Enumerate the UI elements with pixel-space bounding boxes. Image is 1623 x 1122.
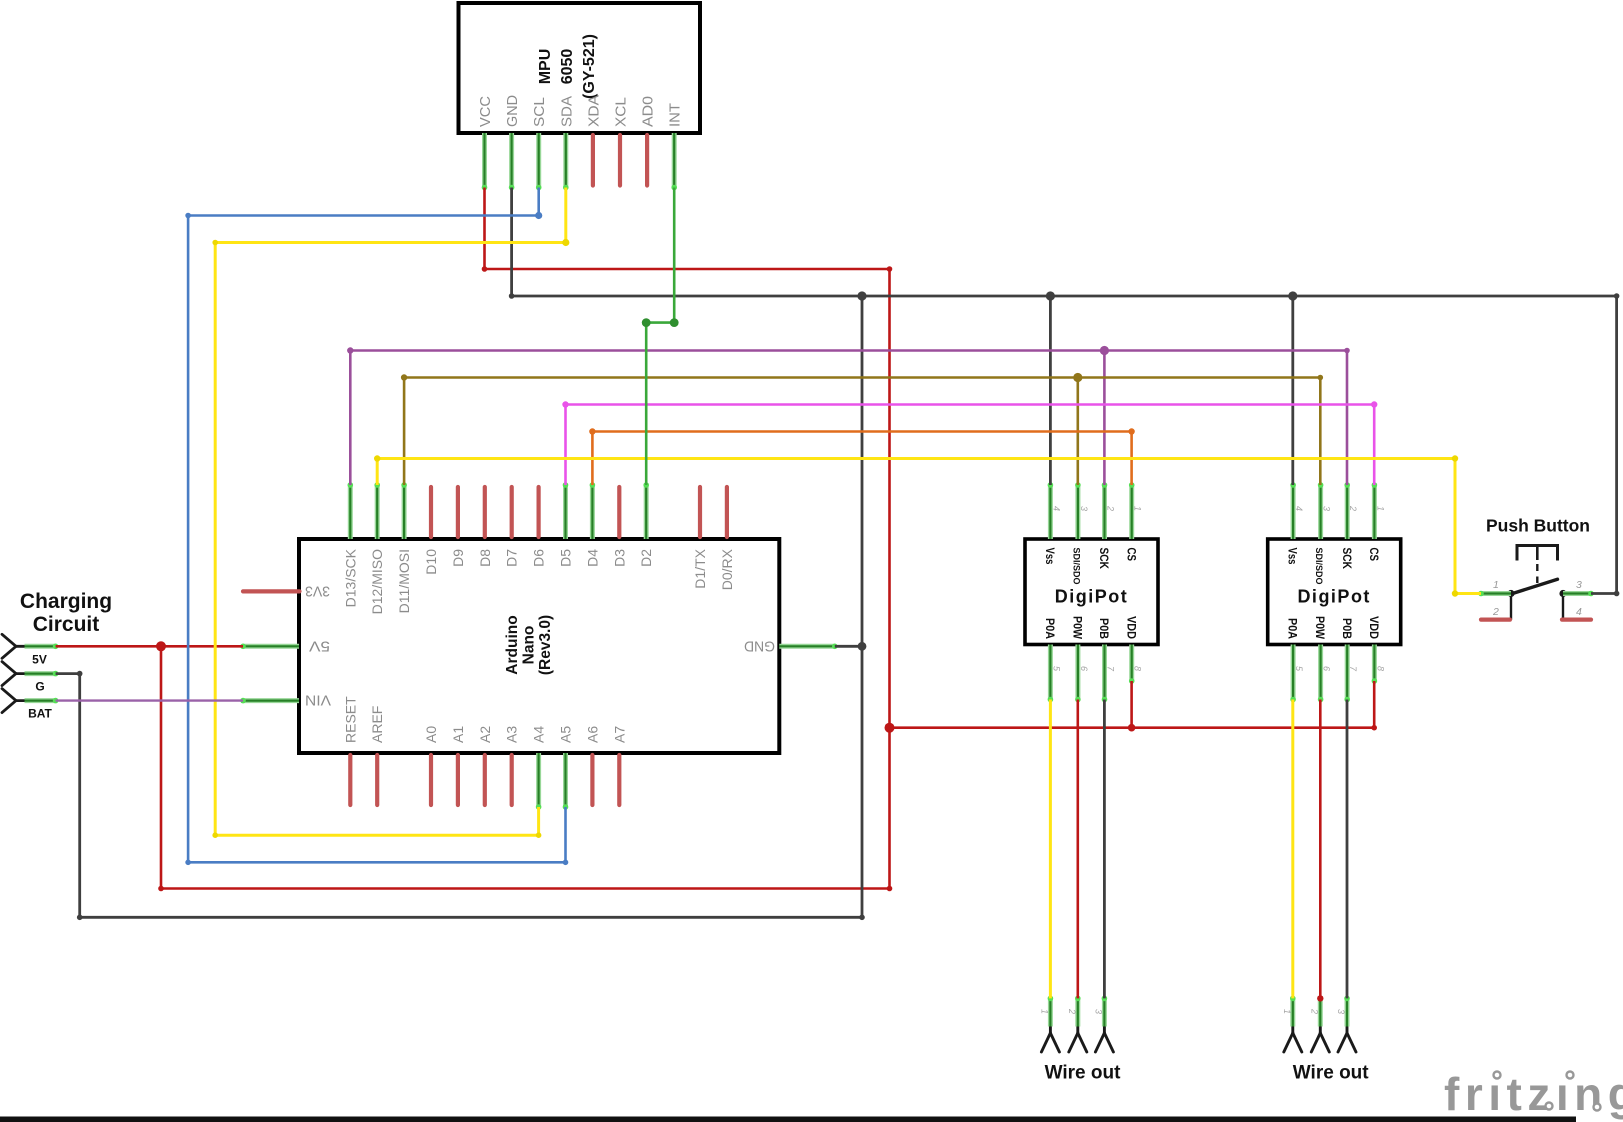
wire: 5V red net — [56, 188, 1375, 999]
svg-text:2: 2 — [1492, 606, 1499, 618]
junction: DigiPot1 Vss — [1046, 291, 1055, 300]
svg-text:(GY-521): (GY-521) — [581, 34, 598, 99]
junction: GND rail top — [857, 291, 866, 300]
svg-text:D0/RX: D0/RX — [719, 548, 735, 590]
svg-text:AD0: AD0 — [640, 96, 657, 127]
svg-text:XCL: XCL — [613, 97, 630, 127]
MPU pin SDA leg — [563, 133, 568, 188]
svg-text:Arduino: Arduino — [504, 615, 521, 674]
svg-text:P0W: P0W — [1313, 616, 1327, 640]
svg-text:frıtzıng: frıtzıng — [1444, 1068, 1623, 1120]
svg-text:SCK: SCK — [1097, 548, 1111, 570]
Arduino pin GND leg — [779, 644, 835, 649]
svg-text:CS: CS — [1124, 548, 1138, 562]
svg-text:VCC: VCC — [477, 96, 494, 127]
svg-text:D12/MISO: D12/MISO — [369, 549, 385, 614]
wire: D12/MISO yellow net to push button — [377, 459, 1481, 594]
svg-text:A5: A5 — [558, 726, 574, 743]
DigiPot U1 pin SCK leg — [1102, 485, 1107, 539]
svg-text:RESET: RESET — [342, 696, 358, 743]
wire: SDA-A4 yellow net — [215, 188, 566, 836]
junction: 5V at Arduino — [156, 641, 166, 651]
junction: DigiPot1 VDD — [1128, 724, 1136, 732]
Arduino pin D2 leg — [644, 485, 649, 539]
connector G leg — [25, 671, 56, 676]
Arduino pin D13/SCK leg — [348, 485, 353, 539]
Arduino pin D6 (unconnected) — [536, 487, 540, 537]
svg-text:SDI/SDO: SDI/SDO — [1314, 548, 1324, 585]
svg-text:D7: D7 — [504, 549, 520, 567]
svg-text:D5: D5 — [558, 549, 574, 567]
svg-text:A3: A3 — [504, 726, 520, 743]
svg-text:VDD: VDD — [1124, 616, 1138, 639]
svg-text:4: 4 — [1576, 606, 1582, 618]
svg-text:2: 2 — [1067, 1008, 1077, 1014]
svg-text:CS: CS — [1367, 548, 1381, 562]
svg-text:VIN: VIN — [305, 692, 331, 709]
connector BAT leg — [25, 698, 56, 703]
svg-text:3: 3 — [1576, 579, 1582, 591]
svg-text:2: 2 — [1309, 1008, 1319, 1014]
MPU pin XCL (unconnected) — [618, 135, 622, 186]
wire-out pin 2 fork — [1069, 1027, 1087, 1053]
svg-text:MPU: MPU — [537, 49, 554, 85]
push button pin 2 (unconnected) — [1481, 617, 1510, 621]
Arduino pin D11/MOSI leg — [402, 485, 407, 539]
svg-text:A4: A4 — [531, 726, 547, 743]
DigiPot U1 pin P0A leg — [1048, 645, 1053, 700]
svg-text:DigiPot: DigiPot — [1055, 587, 1129, 607]
connector 5V fork — [2, 634, 25, 658]
svg-text:D8: D8 — [477, 549, 493, 567]
junction: GND rail / Arduino GND — [858, 642, 867, 651]
svg-text:5V: 5V — [32, 652, 47, 666]
svg-text:A2: A2 — [477, 726, 493, 743]
svg-text:SCL: SCL — [531, 97, 548, 127]
DigiPot U2 pin CS leg — [1372, 485, 1377, 539]
wire-out pin 3 fork — [1338, 1027, 1356, 1053]
DigiPot U1 pin P0W leg — [1075, 645, 1080, 700]
push button pin 3 leg — [1563, 591, 1591, 596]
wire-out pin 1 fork — [1041, 1027, 1059, 1053]
wire: DigiPot P0A yellow outputs — [1050, 700, 1292, 999]
svg-text:1: 1 — [1493, 579, 1499, 591]
svg-text:SDI/SDO: SDI/SDO — [1072, 548, 1082, 585]
Arduino pin AREF (unconnected) — [375, 755, 379, 805]
MPU pin INT leg — [672, 133, 677, 188]
svg-text:INT: INT — [667, 103, 684, 127]
svg-text:P0A: P0A — [1286, 618, 1300, 639]
svg-text:DigiPot: DigiPot — [1297, 587, 1371, 607]
Arduino pin A7 (unconnected) — [617, 755, 621, 805]
wire: GND gray net — [56, 188, 1617, 999]
wire-out pin 2 leg — [1318, 998, 1323, 1026]
push button pin 1 leg — [1481, 591, 1511, 596]
svg-text:6050: 6050 — [559, 49, 576, 85]
svg-text:D10: D10 — [423, 549, 439, 575]
svg-text:VDD: VDD — [1367, 616, 1381, 639]
svg-text:D2: D2 — [638, 549, 654, 567]
Arduino pin D10 (unconnected) — [429, 487, 433, 537]
svg-text:5V: 5V — [309, 638, 330, 655]
DigiPot U2 pin P0W leg — [1318, 645, 1323, 700]
Arduino pin D4 leg — [590, 485, 595, 539]
junction: DigiPot2 Vss — [1288, 291, 1297, 300]
svg-text:1: 1 — [1282, 1009, 1292, 1014]
DigiPot U1 pin SDI/SDO leg — [1075, 485, 1080, 539]
svg-text:Nano: Nano — [521, 626, 538, 665]
wire-out pin 3 fork — [1095, 1027, 1113, 1053]
connector BAT fork — [2, 689, 25, 713]
bottom frame bar — [0, 1117, 1576, 1122]
wire: D11/MOSI dark-yellow net — [404, 378, 1320, 486]
Arduino pin D5 leg — [563, 485, 568, 539]
svg-text:P0B: P0B — [1097, 618, 1111, 639]
Arduino pin 3V3 (unconnected) — [243, 589, 300, 593]
push button pin 4 (unconnected) — [1562, 617, 1591, 621]
DigiPot U1 pin Vss leg — [1048, 485, 1053, 539]
Arduino pin D3 (unconnected) — [617, 487, 621, 537]
connector 5V leg — [25, 644, 56, 649]
Arduino pin D7 (unconnected) — [510, 487, 514, 537]
Arduino pin D9 (unconnected) — [456, 487, 460, 537]
svg-text:Vss: Vss — [1286, 548, 1300, 565]
wire: SCL-A5 blue net — [188, 188, 565, 863]
junction: SDI DigiPot1 — [1073, 373, 1082, 382]
Arduino pin A6 (unconnected) — [590, 755, 594, 805]
Arduino Nano (Rev3.0) body — [299, 539, 779, 753]
MPU pin XDA (unconnected) — [591, 135, 595, 186]
DigiPot U2 pin SDI/SDO leg — [1318, 485, 1323, 539]
connector G fork — [2, 662, 25, 686]
wire: D5 magenta net — [566, 405, 1375, 486]
svg-text:XDA: XDA — [585, 95, 602, 127]
svg-text:3: 3 — [1336, 1009, 1346, 1014]
DigiPot U2 pin VDD leg — [1372, 645, 1377, 682]
wire-out pin 1 fork — [1284, 1027, 1302, 1053]
DigiPot U2 pin SCK leg — [1345, 485, 1350, 539]
svg-text:3: 3 — [1093, 1009, 1103, 1014]
junction: SCK DigiPot1 — [1100, 346, 1109, 355]
svg-text:A0: A0 — [423, 726, 439, 743]
svg-text:Push Button: Push Button — [1486, 516, 1590, 536]
MPU pin VCC leg — [482, 133, 487, 188]
svg-text:Vss: Vss — [1043, 548, 1057, 565]
Arduino pin VIN leg — [243, 698, 299, 703]
svg-text:P0A: P0A — [1043, 618, 1057, 639]
svg-text:1: 1 — [1039, 1009, 1049, 1014]
Arduino pin 5V leg — [243, 644, 299, 649]
svg-text:SCK: SCK — [1340, 548, 1354, 570]
junction: VDD rail — [885, 723, 895, 733]
DigiPot U1 pin CS leg — [1129, 485, 1134, 539]
svg-text:A7: A7 — [611, 726, 627, 743]
DigiPot U2 pin P0B leg — [1345, 645, 1350, 700]
wire: D4 orange net — [592, 432, 1131, 486]
DigiPot U2 pin P0A leg — [1291, 645, 1296, 700]
MPU pin GND leg — [509, 133, 514, 188]
MPU pin AD0 (unconnected) — [645, 135, 649, 186]
wire: BAT-VIN violet — [56, 699, 243, 701]
svg-text:D11/MOSI: D11/MOSI — [396, 549, 412, 613]
DigiPot U1 body — [1025, 539, 1158, 645]
svg-text:A6: A6 — [584, 726, 600, 743]
svg-text:D4: D4 — [584, 549, 600, 567]
svg-text:Wire out: Wire out — [1293, 1063, 1369, 1084]
svg-text:(Rev3.0): (Rev3.0) — [537, 615, 554, 675]
push button S1 symbol — [1511, 546, 1563, 620]
svg-text:AREF: AREF — [369, 706, 385, 743]
svg-text:P0W: P0W — [1071, 616, 1085, 640]
svg-text:GND: GND — [744, 638, 775, 655]
svg-text:Wire out: Wire out — [1045, 1063, 1121, 1084]
svg-text:D3: D3 — [611, 549, 627, 567]
wire-out pin 2 fork — [1311, 1027, 1329, 1053]
Arduino pin A0 (unconnected) — [429, 755, 433, 805]
Arduino pin A5 leg — [563, 753, 568, 807]
Arduino pin D1/TX (unconnected) — [698, 487, 702, 537]
Arduino pin A4 leg — [536, 753, 541, 807]
wire: INT-D2 green net — [646, 188, 674, 486]
svg-text:P0B: P0B — [1340, 618, 1354, 639]
DigiPot U1 pin P0B leg — [1102, 645, 1107, 700]
DigiPot U2 pin Vss leg — [1291, 485, 1296, 539]
svg-text:ChargingCircuit: ChargingCircuit — [20, 590, 112, 636]
svg-text:3V3: 3V3 — [305, 583, 330, 600]
svg-text:D13/SCK: D13/SCK — [342, 548, 358, 607]
svg-text:G: G — [35, 680, 44, 694]
DigiPot U2 body — [1268, 539, 1401, 645]
svg-text:A1: A1 — [450, 726, 466, 743]
svg-text:D6: D6 — [531, 549, 547, 567]
Arduino pin RESET (unconnected) — [348, 755, 352, 805]
wire-out pin 1 leg — [1290, 998, 1295, 1026]
Arduino pin D0/RX (unconnected) — [725, 487, 729, 537]
MPU 6050 (GY-521) module body — [459, 3, 701, 133]
DigiPot U1 pin VDD leg — [1129, 645, 1134, 682]
svg-text:GND: GND — [504, 95, 521, 127]
MPU pin SCL leg — [536, 133, 541, 188]
Arduino pin A2 (unconnected) — [483, 755, 487, 805]
Arduino pin A3 (unconnected) — [510, 755, 514, 805]
Arduino pin A1 (unconnected) — [456, 755, 460, 805]
wire: D13/SCK purple net — [350, 351, 1347, 486]
Arduino pin D12/MISO leg — [375, 485, 380, 539]
svg-text:BAT: BAT — [28, 707, 52, 721]
svg-text:SDA: SDA — [558, 96, 575, 127]
svg-text:D1/TX: D1/TX — [692, 548, 708, 588]
wire-out pin 1 leg — [1048, 998, 1053, 1026]
svg-text:D9: D9 — [450, 549, 466, 567]
wire-out pin 2 leg — [1075, 998, 1080, 1026]
wire-out pin 3 leg — [1102, 998, 1107, 1026]
wire-out pin 3 leg — [1345, 998, 1350, 1026]
Arduino pin D8 (unconnected) — [483, 487, 487, 537]
